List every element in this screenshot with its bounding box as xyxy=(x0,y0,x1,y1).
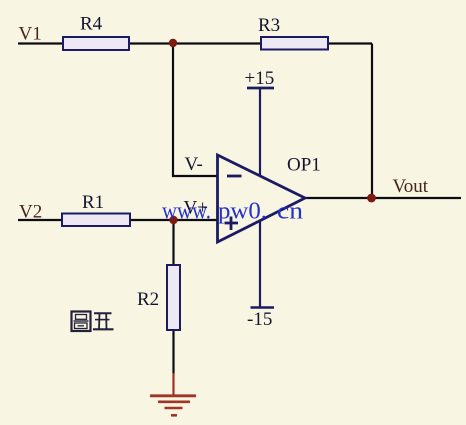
power +15 bar xyxy=(247,87,274,90)
wire output to Vout xyxy=(305,197,461,199)
svg-text:-15: -15 xyxy=(247,309,272,330)
label V+ xyxy=(184,198,208,219)
label V2 xyxy=(19,202,42,223)
op-amp U1 triangle xyxy=(218,155,306,242)
label Vout xyxy=(393,176,429,197)
label OP1 xyxy=(287,155,321,176)
resistor R4 xyxy=(63,37,129,50)
power +15 supply line xyxy=(259,88,261,176)
resistor R3 xyxy=(261,37,328,50)
svg-text:V2: V2 xyxy=(19,202,42,223)
node A junction dot xyxy=(169,39,177,47)
svg-text:V-: V- xyxy=(185,154,203,175)
svg-text:+15: +15 xyxy=(245,68,275,89)
power -15 supply line xyxy=(259,221,261,308)
svg-text:R3: R3 xyxy=(258,15,280,36)
svg-text:R1: R1 xyxy=(82,192,104,213)
watermark www.pw0.cn xyxy=(162,199,303,225)
resistor R2 xyxy=(167,265,180,330)
svg-text:www.pw0.cn: www.pw0.cn xyxy=(162,199,303,225)
resistor R1 xyxy=(62,214,130,227)
label R1 xyxy=(82,192,104,213)
node Vout junction dot xyxy=(367,194,376,203)
label R2 xyxy=(137,289,159,310)
wire R2 to ground xyxy=(172,329,174,395)
ground xyxy=(150,396,196,416)
svg-text:R4: R4 xyxy=(80,14,103,35)
svg-text:Vout: Vout xyxy=(393,176,429,197)
svg-text:OP1: OP1 xyxy=(287,155,321,176)
svg-text:R2: R2 xyxy=(137,289,159,310)
label V- xyxy=(185,154,203,175)
power -15 bar xyxy=(251,306,275,309)
label +15 xyxy=(245,68,275,89)
caption 圖五 xyxy=(72,312,114,332)
op-amp non-inverting pin plus xyxy=(225,217,239,231)
svg-text:V1: V1 xyxy=(19,24,42,45)
wire V2 input through R1 to non-inverting input xyxy=(18,219,218,221)
wire node A down to inverting input xyxy=(173,44,218,177)
wire node B down to R2 xyxy=(172,220,174,266)
wire feedback vertical down to output node xyxy=(371,44,373,199)
label R3 xyxy=(258,15,280,36)
wire V1 input to R4 and on to feedback corner xyxy=(18,42,372,44)
label V1 xyxy=(19,24,42,45)
op-amp inverting pin minus xyxy=(227,175,242,178)
label R4 xyxy=(80,14,103,35)
node B junction dot xyxy=(169,216,177,224)
label -15 xyxy=(247,309,272,330)
